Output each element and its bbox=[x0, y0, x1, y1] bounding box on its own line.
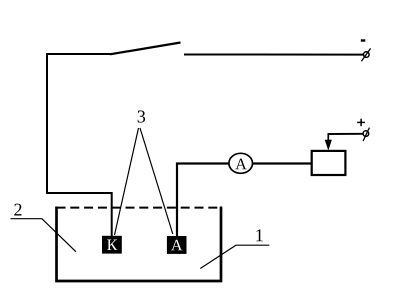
wire left vertical bbox=[46, 53, 48, 194]
terminal minus (circle with slash) bbox=[361, 48, 370, 61]
electrode A (anode, black square) bbox=[167, 236, 187, 254]
minus sign label bbox=[361, 39, 366, 41]
wire from switch to minus terminal bbox=[184, 54, 363, 56]
electrode K (cathode, black square) bbox=[102, 236, 122, 254]
resistor box R1 bbox=[312, 151, 346, 175]
wire horizontal to plus terminal bbox=[328, 133, 364, 135]
label 3 pointer line to K bbox=[115, 128, 139, 235]
label 3 text bbox=[138, 110, 145, 122]
label 3 pointer line to A bbox=[140, 128, 173, 234]
plus sign label bbox=[357, 119, 365, 127]
wire top-left horizontal (from left corner to switch pivot) bbox=[46, 53, 111, 55]
ammeter U1 (circle with A) bbox=[229, 153, 253, 173]
wire horizontal to cathode drop bbox=[46, 192, 112, 194]
wire vertical down to electrode K bbox=[111, 192, 113, 236]
wire from ammeter to resistor box bbox=[253, 162, 313, 164]
label 2 text bbox=[14, 204, 21, 216]
label 1 pointer line bbox=[200, 245, 269, 268]
wire vertical with arrow into box bbox=[325, 134, 332, 151]
bath liquid surface (dashed top edge) bbox=[57, 207, 222, 209]
label 1 text bbox=[256, 229, 262, 241]
wire from anode riser to ammeter bbox=[176, 162, 230, 164]
label 2 pointer line bbox=[11, 219, 76, 252]
wire vertical up from electrode A bbox=[176, 163, 178, 237]
terminal plus (circle with slash) bbox=[363, 128, 369, 141]
switch S1 blade bbox=[110, 43, 181, 55]
bath (electrolytic tank, solid sides and bottom) bbox=[57, 207, 222, 282]
